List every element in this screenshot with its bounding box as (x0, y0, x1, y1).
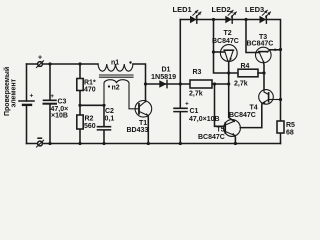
svg-text:LED3: LED3 (245, 5, 264, 14)
wire T2 base (214, 51, 225, 53)
wire LED riser (179, 20, 181, 85)
node T4 base rail (279, 98, 282, 101)
svg-text:R5: R5 (286, 122, 295, 129)
svg-text:BC847C: BC847C (198, 134, 225, 141)
node R4-T3 (262, 71, 265, 74)
wire bottom rail (27, 143, 281, 145)
wire T5 emitter (234, 135, 237, 143)
svg-text:1N5819: 1N5819 (151, 72, 176, 81)
capacitor C1 (174, 84, 187, 144)
svg-text:2,7k: 2,7k (234, 81, 248, 88)
svg-text:BC847C: BC847C (247, 41, 274, 48)
svg-text:T1: T1 (139, 120, 147, 127)
wire T4 base to rail (269, 99, 281, 101)
svg-text:+: + (50, 93, 54, 100)
terminal X2 (-) (38, 141, 43, 146)
node C2 bottom (102, 142, 105, 145)
svg-text:T4: T4 (250, 105, 258, 112)
svg-text:C2: C2 (105, 108, 114, 115)
wire top rail left (27, 63, 99, 65)
transformer winding n2 (104, 80, 139, 109)
resistor R3 (180, 83, 228, 85)
node T2-R4 (227, 71, 230, 74)
label terminal minus (37, 137, 42, 139)
node C1 top (179, 82, 182, 85)
node A right (102, 104, 105, 107)
svg-text:LED1: LED1 (173, 5, 192, 14)
transistor T1 (135, 101, 152, 118)
wire T5 base (215, 84, 224, 126)
capacitor C3 (44, 64, 57, 144)
svg-text:n1: n1 (111, 60, 119, 67)
node C3 bottom (48, 142, 51, 145)
node T1 emitter rail (147, 142, 150, 145)
node C1 bottom (179, 142, 182, 145)
svg-text:47,0×10В: 47,0×10В (189, 116, 220, 123)
svg-text:R1*: R1* (84, 80, 96, 87)
transistor T5 (224, 120, 241, 137)
transistor T4 (259, 90, 274, 105)
LED1 (190, 16, 197, 23)
node T3 emitter rail (279, 48, 282, 51)
resistor R2 (79, 105, 81, 143)
svg-text:C1: C1 (190, 108, 199, 115)
resistor R1 (79, 64, 81, 105)
wire T1 collector (145, 84, 147, 102)
transistor T2 (220, 45, 237, 62)
svg-text:2,7k: 2,7k (189, 91, 203, 98)
node T5 emitter rail (234, 142, 237, 145)
node A left (78, 104, 81, 107)
wire T2 base riser (214, 20, 239, 74)
wire n1 to corner (133, 64, 146, 84)
svg-text:×10В: ×10В (51, 112, 68, 119)
svg-text:n2: n2 (112, 85, 120, 92)
terminal X1 (+) (38, 62, 43, 67)
capacitor C2 (98, 105, 111, 143)
transistor T3 (255, 47, 271, 63)
LED3 (260, 16, 267, 23)
svg-text:T2: T2 (224, 30, 232, 37)
svg-text:BC847C: BC847C (212, 38, 239, 45)
battery GB element under test (19, 100, 34, 102)
svg-text:+: + (30, 93, 34, 100)
node T5 base drop (213, 82, 216, 85)
svg-text:560: 560 (84, 123, 96, 130)
node T2-R3 (227, 82, 230, 85)
wire T2 leads long vertical (229, 61, 235, 121)
node R2 bottom (78, 142, 81, 145)
wire T1 emitter (147, 116, 149, 144)
node D1 anode (144, 82, 147, 85)
node LED1-LED2 (212, 18, 215, 21)
diode D1 (146, 83, 181, 85)
svg-text:0,1: 0,1 (105, 116, 115, 123)
wire T3 emitter to rail (270, 49, 281, 51)
wire T4 emitter to T5 collector (240, 103, 262, 127)
resistor R5 (280, 50, 282, 144)
svg-text:R4: R4 (241, 63, 250, 70)
node LED2-LED3 (244, 18, 247, 21)
wire left battery column (26, 64, 28, 144)
transformer core (100, 75, 134, 77)
wire node A (80, 104, 104, 106)
svg-text:+: + (38, 55, 42, 62)
svg-text:элемент: элемент (11, 78, 18, 107)
svg-text:+: + (185, 101, 189, 108)
svg-text:C3: C3 (58, 99, 67, 106)
svg-text:68: 68 (286, 130, 294, 137)
svg-text:470: 470 (84, 87, 96, 94)
LED2 (225, 16, 232, 23)
node R1 top (78, 62, 81, 65)
resistor R4 (238, 69, 258, 77)
transformer winding n1 (98, 64, 133, 71)
svg-text:BD433: BD433 (127, 127, 149, 134)
node T2 base tap (212, 50, 215, 53)
svg-text:BC847C: BC847C (229, 112, 256, 119)
svg-text:R2: R2 (85, 115, 94, 122)
wire T3 collector lead (263, 62, 266, 90)
node C3 top (48, 62, 51, 65)
svg-text:R3: R3 (193, 69, 202, 76)
wire LED rail (180, 20, 280, 50)
svg-text:T5: T5 (217, 127, 225, 134)
wire T3 base riser (246, 20, 260, 53)
svg-text:LED2: LED2 (212, 5, 231, 14)
label n2 (108, 85, 110, 87)
